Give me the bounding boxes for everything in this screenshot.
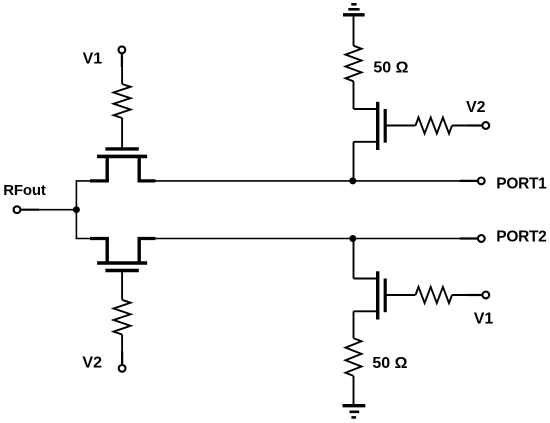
svg-text:50 Ω: 50 Ω [373,60,408,77]
svg-text:V2: V2 [466,99,486,116]
svg-text:V2: V2 [82,354,102,371]
svg-text:V1: V1 [474,311,494,328]
svg-text:50 Ω: 50 Ω [372,355,407,372]
svg-text:PORT2: PORT2 [496,229,546,246]
svg-text:RFout: RFout [3,182,46,199]
svg-text:V1: V1 [83,51,103,68]
svg-text:PORT1: PORT1 [496,175,547,192]
